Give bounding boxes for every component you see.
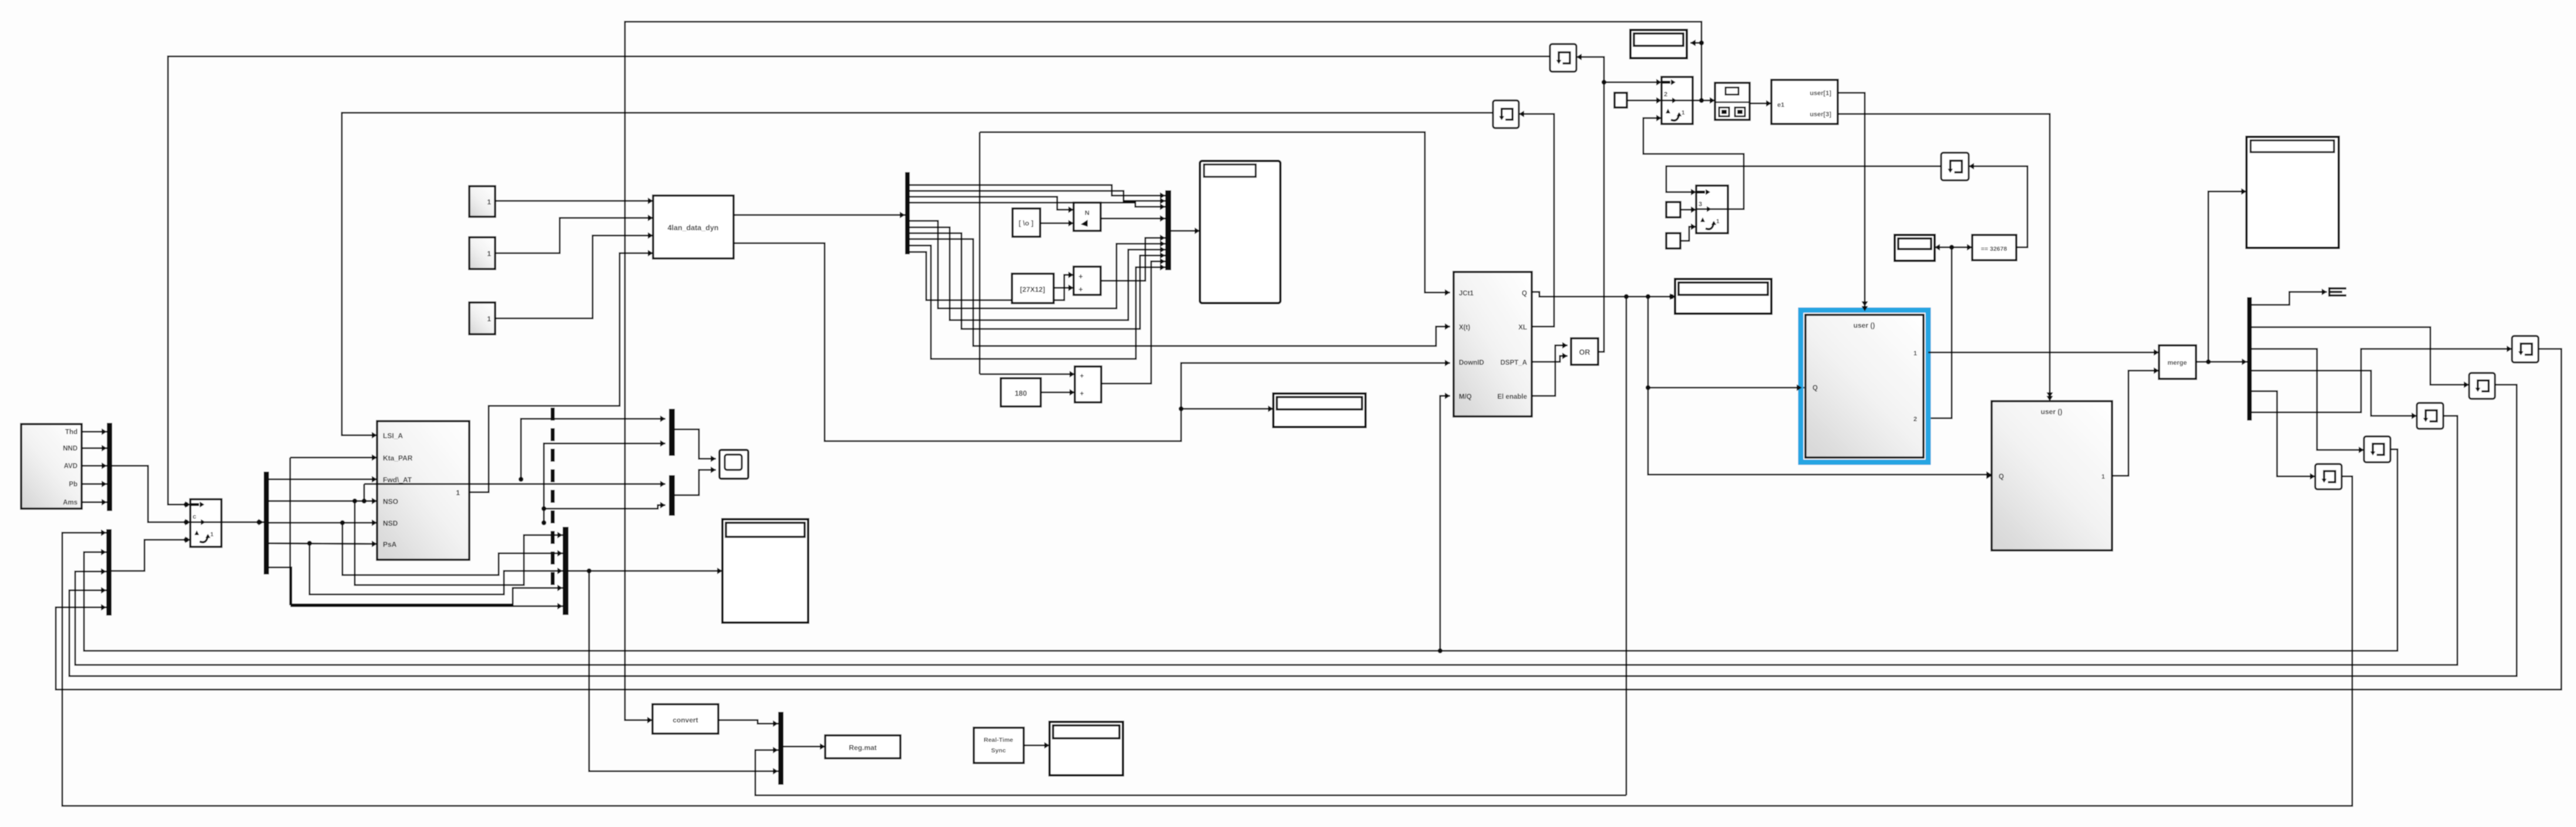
svg-text:Q: Q [1812, 385, 1818, 392]
svg-text:PsA: PsA [383, 540, 397, 549]
svg-text:convert: convert [672, 716, 698, 724]
svg-text:Pb: Pb [69, 481, 78, 488]
svg-text:user (): user () [1854, 321, 1875, 330]
svg-text:AVD: AVD [64, 463, 78, 470]
svg-text:1: 1 [2101, 473, 2105, 480]
svg-text:1: 1 [1913, 350, 1917, 357]
svg-text:[ \o ]: [ \o ] [1018, 219, 1033, 227]
svg-text:El enable: El enable [1498, 394, 1528, 401]
svg-text:3: 3 [1699, 201, 1702, 208]
svg-text:1: 1 [456, 489, 460, 497]
svg-text:Real-Time: Real-Time [984, 737, 1013, 744]
svg-text:1: 1 [1716, 218, 1720, 225]
svg-text:Reg.mat: Reg.mat [849, 744, 876, 752]
svg-text:OR: OR [1579, 348, 1590, 357]
svg-text:JCt1: JCt1 [1459, 290, 1474, 297]
svg-text:1: 1 [1682, 110, 1685, 116]
svg-text:DSPT_A: DSPT_A [1501, 359, 1527, 367]
svg-text:1: 1 [487, 198, 491, 206]
svg-text:N: N [1085, 210, 1089, 217]
svg-text:Q: Q [1999, 473, 2004, 480]
svg-text:Sync: Sync [991, 747, 1005, 754]
svg-text:2: 2 [1664, 91, 1667, 98]
svg-text:Q: Q [1522, 290, 1527, 297]
svg-text:e1: e1 [1777, 102, 1784, 109]
svg-text:X(t): X(t) [1459, 324, 1470, 331]
svg-text:user[3]: user[3] [1810, 111, 1831, 118]
svg-text:NND: NND [63, 445, 78, 452]
svg-text:DownID: DownID [1459, 359, 1484, 367]
svg-text:NSO: NSO [383, 497, 398, 506]
svg-text:[27X12]: [27X12] [1020, 285, 1045, 294]
svg-text:XL: XL [1518, 324, 1527, 331]
svg-text:== 32678: == 32678 [1981, 246, 2007, 253]
svg-text:M/Q: M/Q [1459, 394, 1472, 401]
svg-text:Thd: Thd [65, 429, 78, 436]
svg-text:+: + [1080, 389, 1084, 398]
svg-text:4lan_data_dyn: 4lan_data_dyn [668, 224, 719, 232]
svg-text:180: 180 [1015, 389, 1027, 398]
svg-text:LSI_A: LSI_A [383, 432, 403, 440]
svg-text:+: + [1078, 285, 1083, 294]
svg-text:Kta_PAR: Kta_PAR [383, 454, 413, 462]
svg-text:NSD: NSD [383, 519, 398, 527]
svg-text:user[1]: user[1] [1810, 90, 1831, 97]
svg-text:1: 1 [487, 315, 491, 323]
svg-text:+: + [1078, 272, 1083, 281]
svg-text:1: 1 [210, 532, 214, 538]
svg-text:2: 2 [1913, 416, 1917, 423]
svg-text:Ams: Ams [63, 499, 78, 506]
svg-text:c: c [193, 513, 196, 520]
svg-text:user (): user () [2041, 408, 2063, 416]
svg-text:merge: merge [2167, 359, 2187, 367]
svg-text:+: + [1080, 372, 1084, 380]
svg-text:1: 1 [487, 250, 491, 258]
svg-text:Fwd\_AT: Fwd\_AT [383, 476, 412, 484]
